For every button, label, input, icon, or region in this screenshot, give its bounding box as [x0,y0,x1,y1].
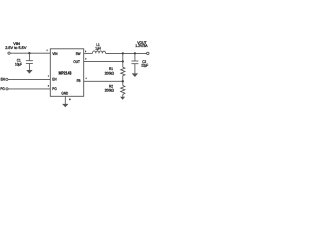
svg-text:FB: FB [77,79,81,83]
capacitor C1 [26,60,33,62]
svg-text:4: 4 [86,77,88,80]
ground C1 [26,70,32,74]
ground R2 [120,97,125,100]
svg-text:PG: PG [52,87,56,91]
svg-text:EN: EN [52,78,56,82]
wire divider top segment [122,53,124,67]
svg-text:1µH: 1µH [95,47,101,51]
node FB junction [122,80,124,82]
svg-text:1: 1 [48,75,50,78]
node C1 junction [28,52,30,54]
svg-text:VIN: VIN [52,52,57,56]
wire GND pin down [64,96,66,104]
wire FB pin to divider [84,80,123,82]
wire R1 to FB junction [122,76,124,86]
terminal VOUT [147,52,149,54]
svg-text:SW: SW [76,52,81,56]
wire VIN terminal to IC VIN pin [10,52,50,54]
resistor R1 [121,67,125,76]
svg-text:1.2V/3A: 1.2V/3A [135,44,148,48]
svg-text:2.5V to 5.5V: 2.5V to 5.5V [5,46,27,50]
terminal EN [6,78,8,80]
ground IC GND [62,104,68,107]
capacitor C2 [131,60,138,62]
wire C1 branch down [28,53,30,60]
node R divider top [122,52,124,54]
svg-text:GND: GND [61,92,68,96]
resistor R2 [121,86,125,95]
terminal PG [6,88,8,90]
terminal VIN [8,52,10,54]
svg-text:6: 6 [85,58,87,61]
IC U1 MP2143 [50,49,83,97]
node C2 top [134,52,136,54]
svg-text:10µF: 10µF [15,63,23,67]
svg-text:22µF: 22µF [141,64,149,68]
svg-text:200kΩ: 200kΩ [105,89,114,93]
wire EN terminal to IC [8,78,50,80]
svg-text:8: 8 [85,50,87,53]
svg-text:MP2143: MP2143 [59,71,72,76]
wire OUT pin to divider [84,60,123,62]
wire R2 to ground [122,95,124,97]
wire PG terminal to IC [8,88,50,90]
svg-text:5: 5 [48,85,50,88]
svg-text:200kΩ: 200kΩ [105,71,114,75]
wire SW pin to inductor [84,52,93,54]
wire C2 branch down [134,53,136,61]
svg-text:EN: EN [1,78,5,82]
svg-text:2: 2 [47,49,49,52]
svg-text:11: 11 [69,98,71,101]
ground C2 [132,73,138,77]
wire L1 to VOUT terminal [106,52,147,54]
inductor L1 [93,51,106,54]
node OUT junction [122,60,124,62]
svg-text:PG: PG [0,87,4,91]
svg-text:OUT: OUT [73,60,80,64]
